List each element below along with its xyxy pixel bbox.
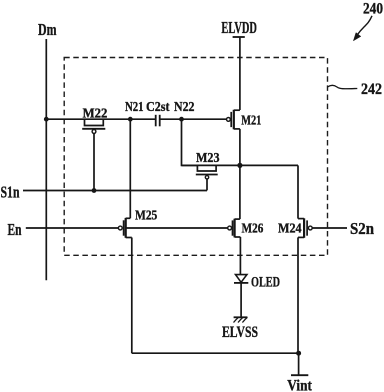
dashed box 242 pixel boundary (64, 58, 327, 256)
wire N21 to M25 source (129, 119, 131, 218)
transistor M26 (228, 219, 241, 238)
wire Dm vertical data line (45, 39, 47, 280)
svg-text:S1n: S1n (1, 182, 20, 201)
svg-text:M21: M21 (241, 114, 261, 129)
wire ELVDD to M21 source (239, 37, 241, 110)
svg-text:ELVSS: ELVSS (222, 324, 258, 341)
svg-text:M22: M22 (83, 106, 108, 121)
wire mid row M23 channel and to M24 branch (182, 164, 299, 166)
svg-text:M23: M23 (196, 151, 220, 166)
svg-text:240: 240 (363, 1, 383, 18)
wire branch down to M24 drain (297, 165, 299, 218)
svg-text:N21: N21 (125, 100, 144, 115)
transistor M25 (118, 218, 131, 238)
capacitor C2st (156, 115, 160, 127)
wire En continues M25 to M26 gate (126, 227, 228, 229)
wire top row from C2st right plate to M21 gate (160, 118, 227, 120)
wire S1n scan line (23, 190, 207, 192)
diode OLED (234, 275, 248, 283)
svg-text:M24: M24 (278, 222, 302, 237)
transistor M22 (82, 119, 105, 190)
svg-text:Vint: Vint (287, 378, 312, 392)
svg-text:C2st: C2st (146, 100, 170, 115)
junction bottom rail with M24 line (296, 351, 301, 356)
arrow for 240 (353, 16, 372, 41)
svg-text:En: En (8, 220, 22, 239)
transistor M24 (298, 218, 312, 238)
wire M25 drain down to bottom rail (131, 238, 133, 354)
wire M26 source down to OLED (239, 237, 241, 275)
wire junction down to Vint terminal (298, 353, 300, 375)
svg-text:ELVDD: ELVDD (221, 18, 257, 37)
wire M24 source down to Vint rail (297, 237, 299, 353)
ELVDD terminal bar (233, 36, 245, 38)
transistor M21 (227, 110, 240, 130)
junction on Dm line (44, 117, 49, 122)
node N22 junction (179, 117, 184, 122)
svg-text:Dm: Dm (38, 20, 57, 39)
wire M24 gate to S2n (312, 227, 347, 229)
svg-text:M25: M25 (135, 208, 157, 223)
svg-text:S2n: S2n (350, 219, 374, 238)
svg-text:OLED: OLED (251, 274, 280, 290)
node N21 junction (128, 117, 133, 122)
leader line for 242 (328, 85, 358, 89)
wire En from label to M25 gate (26, 227, 119, 229)
junction node at M21 drain (237, 163, 242, 168)
wire N22 down to M23 (182, 119, 198, 165)
transistor M23 (196, 165, 218, 190)
svg-text:242: 242 (361, 81, 382, 98)
junction S1n with M22 gate (92, 188, 97, 193)
wire bottom rail to Vint (132, 352, 299, 354)
ground ELVSS symbol (234, 317, 248, 322)
wire top row from Dm to C2st left plate (46, 118, 155, 120)
svg-text:N22: N22 (174, 100, 195, 115)
svg-text:M26: M26 (242, 222, 264, 237)
wire M21 drain down through node to M26 (239, 129, 241, 219)
wire OLED cathode to ELVSS (240, 283, 242, 317)
Vint terminal bar (291, 374, 308, 376)
